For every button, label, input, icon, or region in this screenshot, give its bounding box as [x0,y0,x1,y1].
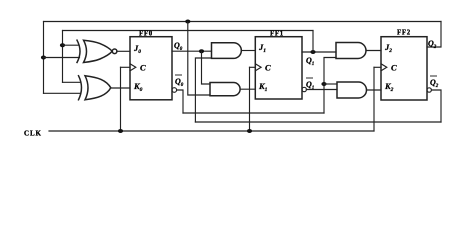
node junction dot on Q1 wire [310,50,315,54]
wire feedback line L1 (Q0bar net) [183,112,324,114]
wire Q0bar output from bubble [172,88,177,93]
wire FF1 clock riser x=249.5 [249,67,251,131]
wire G3 output to J1 [241,50,255,52]
pin C chevron FF1 [255,64,261,71]
node junction dot T1 drop to XNOR lower input [41,56,46,60]
node junction dot CLK to FF1 riser [247,129,252,133]
node junction dot on Q0 wire [199,49,204,53]
wire Q1 output [302,51,336,53]
gate AND G6 (K2) [337,82,367,98]
wire FF0 clock input [121,66,131,68]
wire L1 riser x=324 up to J2/K2 gates [324,58,336,114]
wire top feedback line T2 (Q1 net) [63,30,314,32]
wire XNOR lower input [44,57,80,59]
wire Q0 output [172,50,212,52]
svg-text:CLK: CLK [24,129,42,137]
wire T2 right drop to Q1 wire [312,31,314,53]
wire top feedback line T1 (Q2 net) [44,21,442,23]
wire feedback line L2 (Q2bar net) [195,121,441,123]
gate XOR G2 (to K0) [79,76,111,100]
wire XOR output to K0 [111,87,131,89]
wire G4 output to K1 [240,88,255,90]
wire CLK line [49,130,374,132]
pin C chevron FF2 [381,64,387,71]
wire XOR lower input [44,92,81,94]
gate AND G5 (J2) [336,43,366,59]
svg-text:C: C [140,63,146,73]
wire T1 left drop vertical x=43.5 [43,22,45,94]
wire T2 left drop vertical x=62.5 [62,31,64,83]
svg-text:C: C [265,63,271,73]
wire XOR upper input [63,81,81,83]
svg-text:FF1: FF1 [270,30,284,37]
svg-text:FF0: FF0 [139,30,153,37]
wire Q2 output to T1 [427,22,441,48]
wire L2 riser x=195.4 up to J1 AND gate lower input [195,58,211,122]
node junction dot T2 drop to XNOR upper input [60,43,65,47]
gate XNOR G1 (to J0) [77,40,117,62]
node junction dot CLK to FF0 riser [118,129,123,133]
wire FF2 clock riser x=374 [373,67,375,131]
pin C chevron FF0 [130,64,136,71]
wire Q0 branch down to K1 AND gate upper input [202,51,211,84]
wire Q1bar output from bubble [302,87,306,91]
flip-flop FF2 box [381,37,427,100]
gate AND G3 (J1) [212,43,242,59]
wire Q2bar output from bubble [427,88,431,92]
flip-flop FF0 box [130,37,172,100]
wire XNOR output to J0 [117,50,130,52]
svg-text:FF2: FF2 [397,29,411,36]
node junction dot on T1 at x=187.8 [185,20,190,24]
node junction dot on riser x=324 [321,82,326,86]
wire FF1 clock input [250,66,256,68]
flip-flop FF1 box [255,37,302,99]
wire XNOR upper input [63,44,80,46]
gate AND G4 (K1) [210,83,240,96]
wire FF2 clock input [374,66,381,68]
wire Q2 drop from T1 dot to K1 AND gate lower input [188,22,210,95]
wire G6 output to K2 [367,89,382,91]
wire FF0 clock riser x=120.5 [120,67,122,131]
wire G5 output to J2 [366,50,381,52]
svg-text:C: C [391,63,397,73]
wire branch to K2 AND gate upper input [324,83,337,85]
